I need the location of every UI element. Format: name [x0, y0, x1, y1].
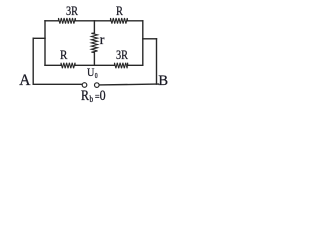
- wire top rail left segment: [45, 20, 59, 22]
- node terminal circle right of U0: [95, 83, 100, 88]
- label 3R (bottom-right resistor): [116, 48, 128, 61]
- label terminal B: [158, 74, 168, 89]
- wire right outer vertical: [156, 39, 158, 84]
- label R (top-right resistor): [116, 4, 123, 17]
- wire top rail right segment: [128, 20, 143, 22]
- label terminal A: [19, 73, 30, 89]
- resistor R1 value 3R (top-left): [59, 18, 76, 24]
- wire top rail middle segment: [76, 20, 111, 22]
- wire left outer vertical: [32, 38, 34, 84]
- resistor R3 value R (bottom-left): [61, 63, 75, 69]
- node terminal circle left of U0: [82, 83, 87, 88]
- label U0 (output voltage): [87, 66, 98, 81]
- resistor R2 value R (top-right): [111, 18, 128, 24]
- wire middle column top lead: [93, 21, 95, 33]
- wire bottom right (right circle to B): [99, 83, 158, 86]
- label R (bottom-left resistor): [60, 48, 67, 61]
- wire right jog: [143, 38, 157, 40]
- wire second rail middle segment: [75, 64, 114, 66]
- wire left box vertical: [44, 21, 46, 66]
- wire left jog: [33, 37, 45, 39]
- wire second rail right segment: [128, 64, 143, 66]
- wire bottom left (A to left terminal circle): [33, 83, 82, 85]
- wire middle column bottom lead: [93, 53, 95, 66]
- wire right box vertical: [142, 21, 144, 66]
- wire second rail left segment: [45, 64, 61, 66]
- resistor R4 value 3R (bottom-right): [115, 63, 128, 69]
- label 3R (top-left resistor): [66, 4, 78, 17]
- label r (middle resistor): [100, 34, 105, 48]
- label Rb=0: [81, 89, 106, 105]
- resistor R5 value r (middle vertical): [91, 33, 97, 53]
